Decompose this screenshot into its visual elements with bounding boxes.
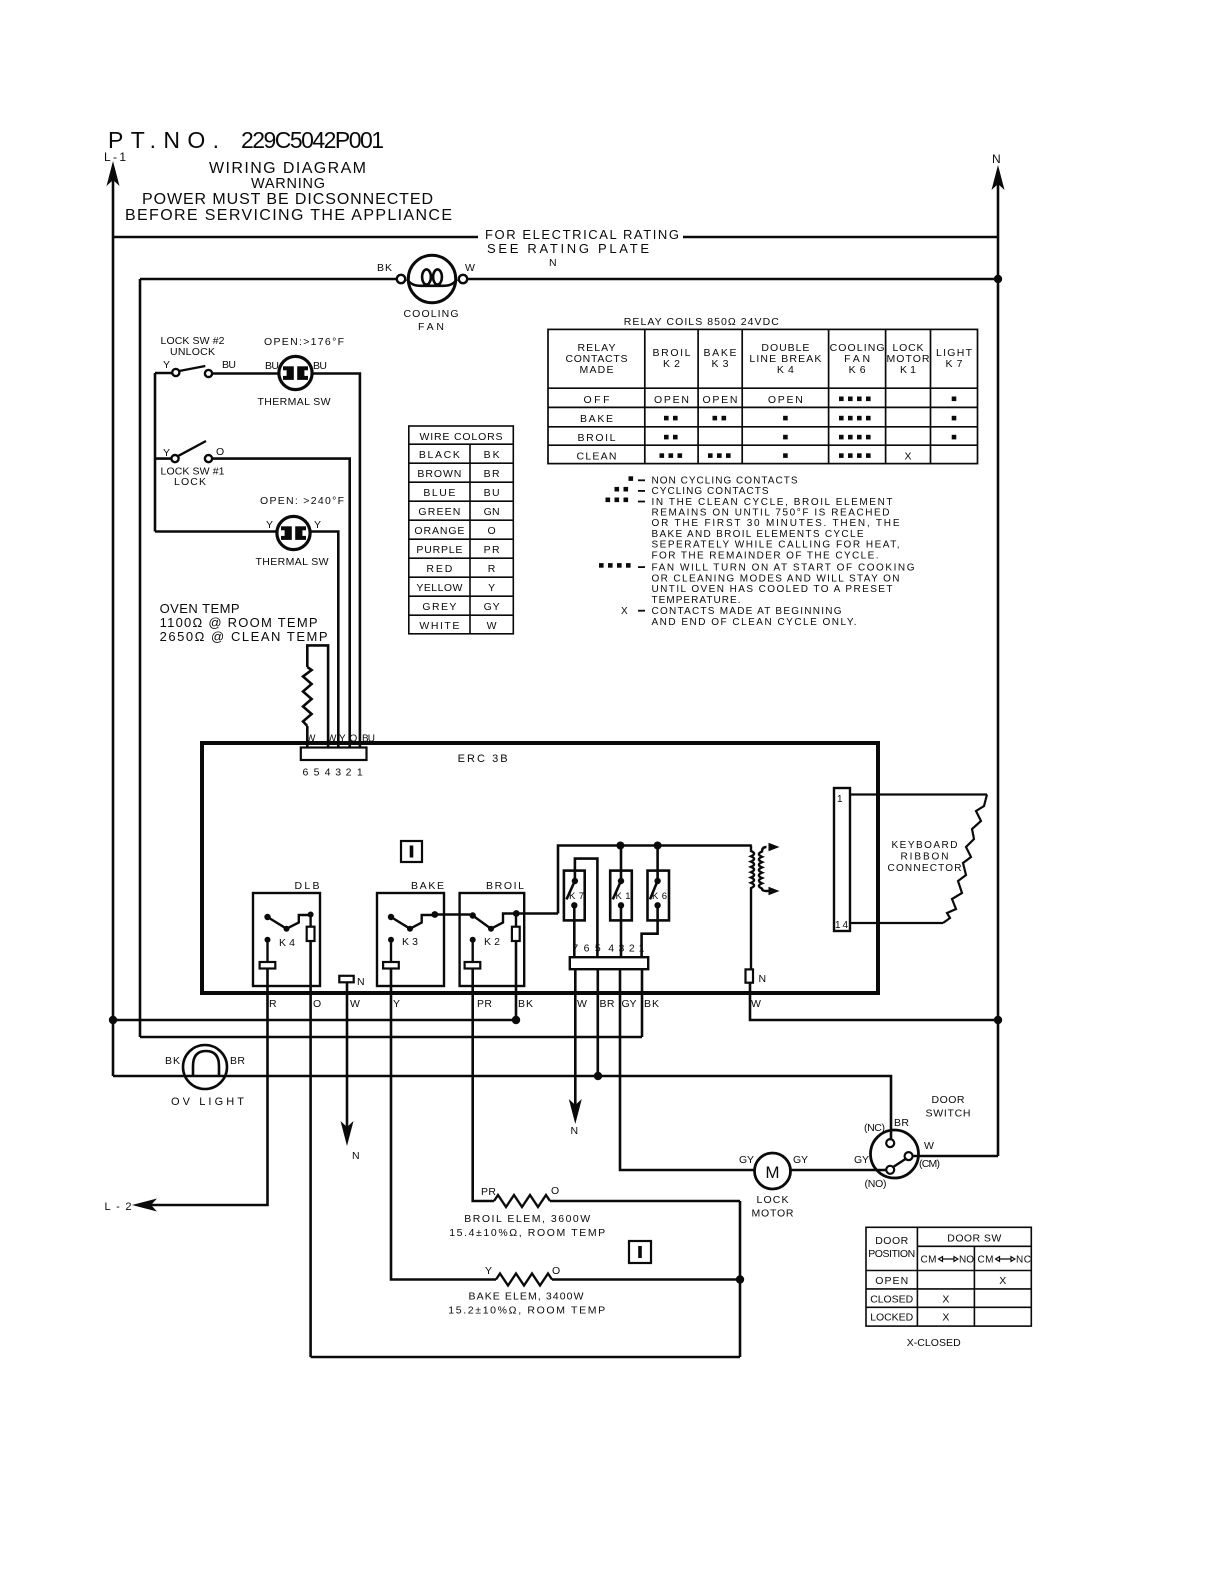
- wire rail to thermal sw2: [155, 530, 278, 533]
- N terminal transformer: [746, 969, 754, 982]
- svg-text:W: W: [487, 620, 497, 632]
- svg-text:SEE RATING PLATE: SEE RATING PLATE: [487, 241, 649, 256]
- svg-text:BK: BK: [484, 449, 500, 461]
- svg-text:Y: Y: [163, 447, 170, 459]
- wire N rail vertical: [997, 176, 1000, 1156]
- svg-text:BROIL: BROIL: [486, 880, 524, 892]
- wire lock sw2 left: [155, 372, 172, 375]
- svg-text:CLOSED: CLOSED: [870, 1293, 913, 1305]
- svg-text:Y: Y: [488, 582, 495, 594]
- wire lock rail x155: [154, 373, 157, 532]
- erc bottom wire labels: [269, 998, 761, 1010]
- svg-text:K3: K3: [712, 358, 729, 370]
- svg-text:SWITCH: SWITCH: [926, 1108, 971, 1120]
- svg-text:M: M: [765, 1163, 779, 1182]
- svg-text:THERMAL SW: THERMAL SW: [258, 396, 331, 408]
- relay BROIL K2: [460, 893, 558, 986]
- svg-text:(NO): (NO): [865, 1178, 887, 1190]
- wire Y thermal sw2 to pin3: [310, 532, 339, 748]
- svg-text:LOCKED: LOCKED: [870, 1312, 913, 1324]
- thermal switch 2: [277, 516, 310, 549]
- svg-text:BU: BU: [265, 360, 279, 372]
- svg-text:O: O: [552, 1265, 560, 1277]
- wire L-1 rail vertical: [112, 172, 115, 1076]
- svg-text:BR: BR: [894, 1117, 909, 1129]
- ERC box: [202, 743, 878, 993]
- svg-text:2: 2: [346, 767, 352, 779]
- wire rating line right: [683, 236, 998, 239]
- svg-text:PURPLE: PURPLE: [416, 544, 462, 556]
- svg-text:7: 7: [572, 943, 578, 955]
- svg-text:BROIL ELEM, 3600W: BROIL ELEM, 3600W: [464, 1213, 590, 1225]
- svg-text:BLACK: BLACK: [419, 449, 460, 461]
- svg-text:X: X: [621, 606, 628, 617]
- svg-text:ORANGE: ORANGE: [414, 525, 464, 537]
- door switch: [871, 1130, 919, 1178]
- svg-text:1: 1: [639, 943, 645, 955]
- svg-text:K7: K7: [569, 891, 584, 902]
- svg-text:L-2: L-2: [105, 1201, 132, 1213]
- connector 7-pin: [570, 957, 648, 969]
- svg-text:BAKE ELEM, 3400W: BAKE ELEM, 3400W: [469, 1291, 584, 1303]
- svg-text:WIRE COLORS: WIRE COLORS: [420, 431, 503, 443]
- svg-text:Y: Y: [163, 359, 170, 371]
- svg-text:OPEN: OPEN: [768, 394, 803, 406]
- svg-text:N: N: [992, 152, 1001, 166]
- thermal switch 1: [279, 356, 312, 389]
- svg-text:1: 1: [357, 767, 363, 779]
- keyboard ribbon connector: [834, 788, 987, 931]
- svg-text:6: 6: [584, 943, 590, 955]
- lock switch 1: [171, 441, 212, 462]
- note star marks and dashes: [599, 476, 645, 611]
- wire GY erc pin3 to lock motor: [620, 969, 755, 1170]
- svg-text:CONNECTOR: CONNECTOR: [888, 863, 962, 874]
- svg-text:GN: GN: [484, 506, 500, 518]
- svg-text:CONTACTS: CONTACTS: [566, 353, 628, 365]
- svg-text:SEPERATELY WHILE CALLING FOR H: SEPERATELY WHILE CALLING FOR HEAT,: [652, 539, 900, 550]
- svg-text:LINE BREAK: LINE BREAK: [749, 353, 821, 365]
- svg-text:FAN WILL TURN ON AT START OF C: FAN WILL TURN ON AT START OF COOKING: [652, 562, 915, 573]
- wire O lock sw1 to pin2: [212, 459, 350, 748]
- wire second rail vertical: [139, 279, 142, 1037]
- svg-text:BROIL: BROIL: [578, 432, 616, 444]
- svg-text:UNLOCK: UNLOCK: [170, 346, 215, 358]
- arrow N down at x347: [341, 1121, 354, 1146]
- svg-text:OPEN: >240°F: OPEN: >240°F: [260, 495, 344, 507]
- asterisk marks in relay table: [660, 397, 957, 458]
- svg-text:NON CYCLING CONTACTS: NON CYCLING CONTACTS: [652, 476, 798, 487]
- svg-text:RELAY COILS 850Ω 24VDC: RELAY COILS 850Ω 24VDC: [624, 316, 779, 328]
- svg-text:WIRING DIAGRAM: WIRING DIAGRAM: [209, 160, 366, 177]
- svg-text:BR: BR: [484, 468, 500, 480]
- door position table: [866, 1227, 1031, 1326]
- svg-text:CYCLING CONTACTS: CYCLING CONTACTS: [652, 486, 769, 497]
- svg-text:GREEN: GREEN: [418, 506, 460, 518]
- svg-text:GY: GY: [622, 998, 637, 1010]
- svg-text:(CM): (CM): [919, 1158, 940, 1170]
- svg-text:4: 4: [608, 943, 614, 955]
- svg-text:1: 1: [837, 794, 843, 805]
- svg-text:WHITE: WHITE: [419, 620, 459, 632]
- svg-text:UNTIL OVEN HAS COOLED TO A PRE: UNTIL OVEN HAS COOLED TO A PRESET: [652, 584, 893, 595]
- svg-text:CM: CM: [978, 1255, 994, 1266]
- wire cooling fan line left: [140, 278, 397, 281]
- svg-text:K4: K4: [279, 937, 295, 949]
- arrow N down at x575: [569, 1099, 582, 1124]
- svg-text:X-CLOSED: X-CLOSED: [907, 1337, 961, 1349]
- bake element resistor: [496, 1274, 552, 1286]
- svg-text:OPEN: OPEN: [875, 1275, 908, 1287]
- svg-text:IN THE CLEAN CYCLE, BROIL ELEM: IN THE CLEAN CYCLE, BROIL ELEMENT: [652, 497, 893, 508]
- svg-text:Y: Y: [266, 519, 273, 531]
- svg-text:BAKE AND BROIL ELEMENTS CYCLE: BAKE AND BROIL ELEMENTS CYCLE: [652, 529, 864, 540]
- svg-text:O: O: [216, 446, 224, 458]
- svg-text:NO: NO: [959, 1255, 974, 1266]
- svg-text:OPEN: OPEN: [703, 394, 738, 406]
- svg-text:K1: K1: [900, 364, 916, 376]
- svg-text:BU: BU: [484, 487, 500, 499]
- svg-text:GY: GY: [793, 1154, 808, 1166]
- svg-text:OVEN TEMP: OVEN TEMP: [160, 601, 240, 616]
- svg-text:WARNING: WARNING: [251, 176, 325, 192]
- svg-text:R: R: [488, 563, 496, 575]
- svg-text:PR: PR: [484, 544, 500, 556]
- wire oven light line y1076: [113, 1076, 891, 1139]
- wire O from DLB to bottom bus: [309, 941, 312, 1357]
- wire Y bake element feed: [391, 969, 496, 1280]
- svg-text:MOTOR: MOTOR: [752, 1208, 794, 1220]
- svg-text:K6: K6: [849, 364, 866, 376]
- svg-text:W: W: [924, 1140, 934, 1152]
- svg-text:DOOR SW: DOOR SW: [947, 1233, 1001, 1245]
- svg-text:LIGHT: LIGHT: [936, 347, 973, 359]
- svg-text:BROIL: BROIL: [653, 347, 691, 359]
- svg-text:BAKE: BAKE: [411, 880, 444, 892]
- svg-text:O: O: [313, 998, 321, 1010]
- svg-text:KEYBOARD: KEYBOARD: [892, 840, 958, 851]
- svg-text:X: X: [904, 451, 911, 463]
- relay BAKE K3: [377, 893, 470, 986]
- svg-text:OR CLEANING MODES AND WILL STA: OR CLEANING MODES AND WILL STAY ON: [652, 573, 900, 584]
- svg-text:CM: CM: [921, 1255, 937, 1266]
- wire BR erc pin5: [596, 969, 599, 1076]
- svg-text:2650Ω @ CLEAN TEMP: 2650Ω @ CLEAN TEMP: [160, 629, 328, 644]
- wire W neutral stub left: [346, 982, 349, 1138]
- svg-text:FAN: FAN: [418, 321, 444, 333]
- svg-text:TEMPERATURE.: TEMPERATURE.: [652, 595, 741, 606]
- svg-text:GREY: GREY: [422, 601, 456, 613]
- svg-text:1100Ω @ ROOM TEMP: 1100Ω @ ROOM TEMP: [160, 615, 318, 630]
- wire BK from BROIL coil: [515, 941, 518, 1020]
- svg-text:BR: BR: [600, 998, 615, 1010]
- arrow L-1 up: [107, 161, 120, 186]
- boxed I symbol in ERC: [401, 841, 422, 862]
- svg-text:Y: Y: [314, 519, 321, 531]
- transformer primary winding: [751, 846, 754, 970]
- svg-text:BK: BK: [644, 998, 659, 1010]
- svg-text:Y: Y: [485, 1265, 492, 1277]
- svg-text:4: 4: [325, 767, 331, 779]
- svg-text:K3: K3: [402, 936, 418, 948]
- boxed I symbol near broil element: [629, 1241, 651, 1263]
- wire lock sw1 left: [155, 457, 172, 460]
- svg-text:OPEN:>176°F: OPEN:>176°F: [264, 336, 344, 348]
- svg-text:BR: BR: [230, 1055, 245, 1067]
- svg-text:6: 6: [302, 767, 308, 779]
- svg-text:GY: GY: [854, 1154, 869, 1166]
- svg-text:X: X: [942, 1293, 949, 1305]
- svg-text:COOLING: COOLING: [404, 308, 459, 320]
- wire door switch CM to N rail: [913, 1155, 998, 1158]
- svg-text:PR: PR: [477, 998, 492, 1010]
- arrow L-2 left: [132, 1199, 157, 1212]
- svg-text:BAKE: BAKE: [704, 347, 737, 359]
- wire BK erc pin1 to neutral bus: [641, 969, 644, 1037]
- wire bottom bus: [311, 1356, 740, 1359]
- svg-text:OV LIGHT: OV LIGHT: [171, 1096, 244, 1108]
- svg-text:BK: BK: [165, 1055, 180, 1067]
- wire lock sw2 to thermal sw1: [212, 372, 280, 375]
- svg-text:BLUE: BLUE: [423, 487, 455, 499]
- svg-text:AND END OF CLEAN CYCLE ONLY.: AND END OF CLEAN CYCLE ONLY.: [652, 617, 857, 628]
- relay coil K6: [642, 846, 669, 958]
- svg-text:N: N: [571, 1125, 579, 1137]
- svg-text:DLB: DLB: [295, 880, 320, 892]
- svg-text:BU: BU: [313, 360, 327, 372]
- wire K coil supply line: [558, 846, 752, 914]
- wire broil element right: [550, 1200, 740, 1203]
- svg-text:OFF: OFF: [584, 394, 610, 406]
- svg-text:OPEN: OPEN: [654, 394, 689, 406]
- svg-text:N: N: [357, 976, 365, 988]
- svg-text:K7: K7: [946, 358, 963, 370]
- svg-text:LOCK: LOCK: [757, 1194, 789, 1206]
- svg-text:DOOR: DOOR: [932, 1094, 965, 1106]
- svg-text:DOOR: DOOR: [875, 1235, 908, 1247]
- relay DLB K4: [253, 893, 320, 986]
- arrow N up: [992, 165, 1005, 190]
- svg-text:W: W: [465, 262, 475, 274]
- relay coil K1: [610, 846, 632, 958]
- svg-text:(NC): (NC): [864, 1122, 885, 1134]
- svg-text:5: 5: [595, 943, 601, 955]
- svg-text:15.2±10%Ω, ROOM TEMP: 15.2±10%Ω, ROOM TEMP: [448, 1305, 605, 1317]
- svg-text:REMAINS ON UNTIL 750°F IS REAC: REMAINS ON UNTIL 750°F IS REACHED: [652, 507, 890, 518]
- svg-text:R: R: [269, 998, 277, 1010]
- svg-text:THERMAL SW: THERMAL SW: [256, 556, 329, 568]
- broil element resistor: [494, 1195, 550, 1207]
- wire cooling fan line right: [467, 278, 998, 281]
- svg-text:O: O: [551, 1185, 559, 1197]
- svg-text:K4: K4: [777, 364, 794, 376]
- wire lock motor to door switch NO: [791, 1169, 887, 1172]
- door sw arrow headers: [921, 1255, 1032, 1266]
- svg-text:PR: PR: [481, 1186, 496, 1198]
- lock motor: [755, 1153, 791, 1189]
- svg-text:GY: GY: [739, 1154, 754, 1166]
- svg-text:MADE: MADE: [580, 364, 614, 376]
- svg-text:X: X: [942, 1312, 949, 1324]
- svg-text:229C5042P001: 229C5042P001: [241, 127, 384, 153]
- svg-text:POSITION: POSITION: [868, 1248, 915, 1260]
- svg-text:2: 2: [629, 943, 635, 955]
- svg-text:N: N: [759, 973, 767, 985]
- svg-text:5: 5: [314, 767, 320, 779]
- wire rating line left: [113, 236, 478, 239]
- svg-text:CLEAN: CLEAN: [577, 451, 617, 463]
- wire W erc pin7 neutral stub: [574, 969, 577, 1116]
- N terminal in ERC: [339, 976, 353, 983]
- svg-text:RIBBON: RIBBON: [901, 852, 949, 863]
- svg-text:BEFORE SERVICING THE APPLIANCE: BEFORE SERVICING THE APPLIANCE: [125, 207, 452, 224]
- svg-text:BU: BU: [222, 359, 236, 371]
- svg-text:MOTOR: MOTOR: [887, 353, 930, 365]
- svg-text:14: 14: [835, 920, 848, 931]
- svg-text:K1: K1: [616, 891, 631, 902]
- svg-text:O: O: [488, 525, 496, 537]
- svg-text:BK: BK: [518, 998, 533, 1010]
- svg-text:Y: Y: [393, 998, 400, 1010]
- wire W transformer neutral to N rail: [750, 983, 998, 1020]
- svg-text:W: W: [577, 998, 587, 1010]
- svg-text:ERC 3B: ERC 3B: [458, 753, 508, 765]
- wire BU thermal sw1 to pin1: [312, 374, 360, 748]
- svg-text:FOR ELECTRICAL RATING: FOR ELECTRICAL RATING: [485, 227, 679, 242]
- wire neutral bus y1037: [140, 1036, 642, 1039]
- svg-text:15.4±10%Ω, ROOM TEMP: 15.4±10%Ω, ROOM TEMP: [449, 1227, 605, 1239]
- resistor oven temp sensor: [303, 667, 312, 726]
- wire bake element right: [552, 1278, 740, 1281]
- svg-text:NC: NC: [1016, 1255, 1031, 1266]
- wire colors table: [409, 426, 514, 634]
- svg-text:K2: K2: [484, 936, 500, 948]
- svg-text:POWER MUST BE DICSONNECTED: POWER MUST BE DICSONNECTED: [142, 191, 433, 208]
- svg-text:X: X: [999, 1275, 1006, 1287]
- svg-text:K6: K6: [652, 891, 667, 902]
- svg-text:BK: BK: [377, 262, 392, 274]
- cooling fan: [397, 255, 467, 302]
- svg-text:K2: K2: [663, 358, 680, 370]
- lock switch 2: [172, 366, 212, 377]
- notes under relay table: [621, 476, 915, 628]
- svg-text:W: W: [350, 998, 360, 1010]
- svg-text:3: 3: [618, 943, 624, 955]
- wire PR broil element feed: [473, 969, 494, 1202]
- svg-text:W: W: [751, 998, 761, 1010]
- relay coil K7: [564, 859, 598, 958]
- oven temp sensor loop: [307, 645, 328, 747]
- svg-text:LOCK: LOCK: [174, 476, 206, 488]
- connector 6-pin: [301, 748, 367, 761]
- svg-text:N: N: [549, 257, 557, 269]
- wire element return riser: [739, 1201, 742, 1357]
- svg-text:YELLOW: YELLOW: [416, 582, 462, 594]
- svg-text:GY: GY: [484, 601, 500, 613]
- svg-text:L-1: L-1: [104, 150, 126, 164]
- wire R from DLB: [138, 969, 268, 1206]
- svg-text:RED: RED: [426, 563, 452, 575]
- svg-text:3: 3: [335, 767, 341, 779]
- svg-text:BAKE: BAKE: [580, 413, 613, 425]
- oven light: [183, 1045, 227, 1089]
- wire BK neutral link y1020: [113, 1019, 516, 1022]
- transformer secondary winding: [759, 847, 770, 891]
- svg-text:N: N: [352, 1150, 360, 1162]
- svg-text:BROWN: BROWN: [417, 468, 461, 480]
- transformer secondary arrows: [769, 843, 780, 896]
- svg-text:OR THE FIRST 30 MINUTES. THEN,: OR THE FIRST 30 MINUTES. THEN, THE: [652, 518, 900, 529]
- svg-text:FOR THE REMAINDER OF THE CYCLE: FOR THE REMAINDER OF THE CYCLE.: [652, 550, 879, 561]
- svg-text:CONTACTS MADE AT BEGINNING: CONTACTS MADE AT BEGINNING: [652, 606, 842, 617]
